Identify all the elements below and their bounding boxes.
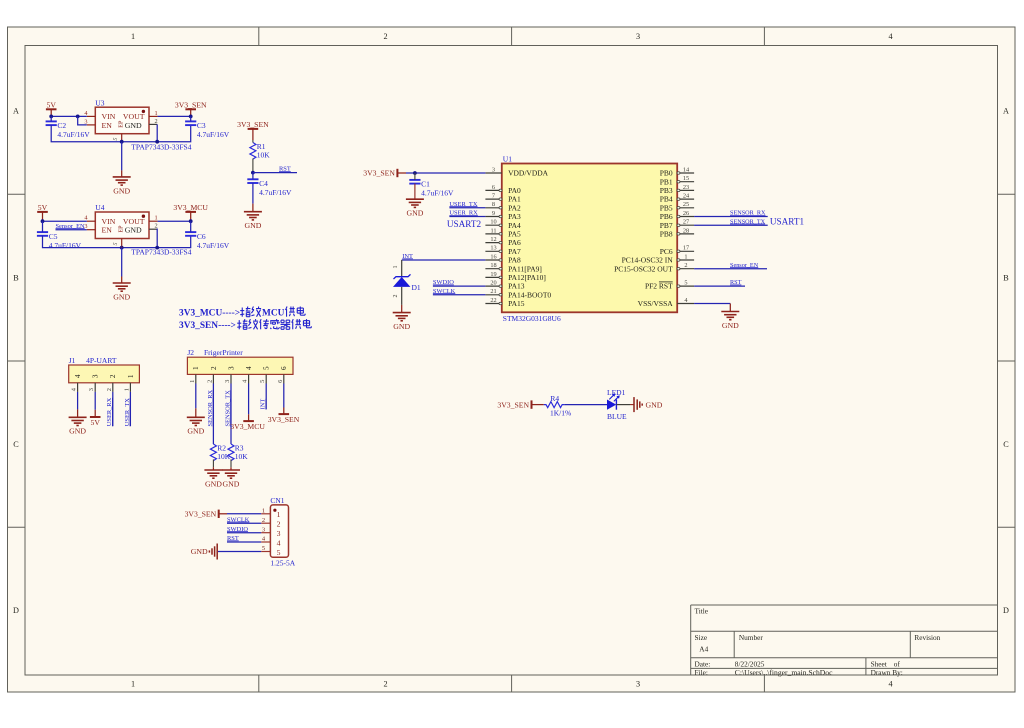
pin 4 (VIN) of U4	[84, 215, 95, 222]
svg-text:of: of	[894, 659, 901, 668]
svg-text:C:\Users\..\finger_main.SchDoc: C:\Users\..\finger_main.SchDoc	[735, 668, 833, 677]
svg-text:C3: C3	[197, 121, 206, 130]
pin 4 of J1	[71, 374, 82, 392]
wire ground rail to C3 bottom	[157, 125, 191, 142]
svg-text:PC14-OSC32 IN: PC14-OSC32 IN	[622, 256, 674, 265]
svg-text:PA13: PA13	[508, 282, 525, 291]
svg-text:2: 2	[106, 388, 113, 391]
net label SENSOR_TX (J2)	[224, 390, 231, 427]
svg-text:3V3_SEN: 3V3_SEN	[497, 400, 529, 409]
wire J2 pin3 to R3	[230, 384, 232, 445]
wire J1 pin2 USER_RX	[112, 392, 114, 426]
svg-text:2: 2	[206, 380, 213, 383]
wire EP to rail U4	[121, 247, 123, 248]
svg-text:1: 1	[684, 253, 687, 260]
resistor R4	[544, 394, 571, 418]
microcontroller U1	[502, 154, 677, 322]
svg-text:Date:: Date:	[695, 659, 711, 668]
wire RST node to C4 top	[252, 173, 254, 180]
power port 3V3_SEN (J2)	[268, 408, 300, 424]
net label SENSOR_RX (J2)	[207, 390, 214, 427]
wire EN branch U3	[78, 116, 87, 125]
power port 3V3_MCU (J2)	[230, 414, 265, 431]
svg-text:21: 21	[490, 288, 496, 295]
wire LED1 cathode	[616, 404, 630, 406]
svg-text:10K: 10K	[235, 452, 249, 461]
capacitor C5	[37, 232, 82, 250]
svg-text:2: 2	[393, 295, 399, 298]
svg-text:C5: C5	[49, 232, 58, 241]
svg-text:3V3_MCU: 3V3_MCU	[173, 203, 208, 212]
ground GND (D1)	[393, 305, 411, 331]
ground GND (J1)	[69, 409, 87, 435]
svg-text:PB4: PB4	[660, 195, 673, 204]
wire J2 pin1 to GND	[195, 384, 197, 409]
pin 5 (EP) of U4	[113, 239, 122, 247]
pin 1 (VOUT) of U3	[149, 110, 158, 117]
connector J2	[187, 348, 293, 374]
svg-text:VSS/VSSA: VSS/VSSA	[638, 299, 674, 308]
svg-text:STM32G031G8U6: STM32G031G8U6	[503, 314, 561, 323]
connector J1	[69, 356, 140, 383]
svg-text:B: B	[13, 274, 19, 283]
svg-text:3V3_MCU---->: 3V3_MCU---->	[179, 309, 240, 319]
pin 21 (PA14-BOOT0) of U1	[485, 288, 551, 299]
svg-text:PA8: PA8	[508, 256, 521, 265]
pin 27 (PB7) of U1	[660, 219, 694, 230]
wire R4 to LED1	[564, 404, 607, 406]
svg-text:4: 4	[245, 366, 253, 370]
power port 3V3_MCU (U4 output)	[173, 203, 208, 221]
svg-text:PA11[PA9]: PA11[PA9]	[508, 264, 542, 273]
svg-text:3: 3	[636, 32, 640, 41]
svg-text:Number: Number	[739, 633, 763, 642]
svg-text:4.7uF/16V: 4.7uF/16V	[421, 189, 454, 198]
svg-text:26: 26	[683, 210, 689, 217]
svg-text:PB0: PB0	[660, 169, 673, 178]
svg-text:10K: 10K	[257, 150, 271, 159]
pin 18 (PA11[PA9]) of U1	[485, 262, 541, 273]
svg-text:3V3_MCU: 3V3_MCU	[230, 422, 265, 431]
svg-text:BLUE: BLUE	[607, 412, 627, 421]
svg-text:PB1: PB1	[660, 177, 673, 186]
wire RST to CN1 pin4	[227, 541, 261, 543]
svg-text:J2: J2	[187, 348, 194, 357]
zone labels columns	[131, 32, 893, 689]
svg-text:2: 2	[155, 118, 158, 125]
capacitor C2	[46, 121, 91, 139]
svg-text:A: A	[1003, 107, 1009, 116]
svg-text:1: 1	[155, 110, 158, 117]
wire 5V to C2 top	[50, 116, 52, 121]
ground GND (R3)	[222, 467, 240, 488]
svg-text:15: 15	[683, 175, 689, 182]
svg-text:GND: GND	[187, 427, 204, 436]
pin 1 of J2	[189, 366, 200, 384]
wire SWDIO to PA13	[433, 285, 486, 287]
svg-text:3V3_SEN: 3V3_SEN	[175, 100, 207, 109]
net label INT (J2)	[260, 399, 267, 410]
svg-text:PA4: PA4	[508, 221, 521, 230]
svg-text:GND: GND	[191, 547, 208, 556]
wire 3V3_SEN to C3 top	[190, 116, 192, 121]
svg-text:GND: GND	[205, 479, 222, 488]
svg-text:File:: File:	[695, 668, 708, 677]
pin 2 of J1	[106, 374, 117, 392]
wire Sensor_EN to U4 EN	[56, 229, 87, 231]
svg-text:6: 6	[277, 380, 284, 383]
junction pin2 / rail U4	[155, 246, 159, 250]
svg-text:3V3_SEN: 3V3_SEN	[237, 120, 269, 129]
pin 5 (PF2 RST) of U1	[645, 280, 694, 291]
pin 3 (EN) of U3	[84, 118, 95, 125]
pin 4 (VSS/VSSA) of U1	[638, 297, 694, 308]
wire U3 VOUT to 3V3_SEN	[158, 115, 191, 117]
svg-text:3V3_SEN: 3V3_SEN	[268, 415, 300, 424]
svg-text:2: 2	[277, 520, 281, 529]
wire USER_TX to PA2	[449, 207, 485, 209]
pin 2 (GND) of U4	[149, 223, 158, 230]
svg-text:VDD/VDDA: VDD/VDDA	[508, 169, 549, 178]
wire 5V to C5 top	[42, 221, 44, 232]
junction VIN / EN branch	[76, 115, 80, 119]
svg-text:C: C	[13, 440, 19, 449]
svg-text:9: 9	[492, 210, 495, 217]
wire INT to PA8	[402, 259, 486, 261]
svg-text:12: 12	[490, 236, 496, 243]
svg-text:27: 27	[683, 219, 689, 226]
svg-text:3: 3	[277, 529, 281, 538]
wire 3V3_SEN to R1	[252, 140, 254, 143]
pin 6 of J2	[277, 366, 288, 384]
svg-text:4: 4	[277, 538, 281, 547]
power port 5V (U4 input)	[37, 203, 48, 221]
svg-text:2: 2	[684, 262, 687, 269]
svg-text:5V: 5V	[46, 100, 56, 109]
svg-text:EN: EN	[102, 121, 113, 130]
power port 3V3_SEN (U1 VDD)	[363, 169, 406, 178]
svg-text:3: 3	[224, 380, 231, 383]
ground GND (R2)	[204, 467, 222, 488]
svg-text:D: D	[1003, 606, 1009, 615]
pin 9 (PA3) of U1	[485, 210, 521, 221]
junction EP / rail U4	[120, 246, 124, 250]
junction 3V3_SEN / C3	[189, 115, 193, 119]
svg-text:A: A	[13, 107, 19, 116]
svg-text:USART2: USART2	[447, 219, 482, 229]
svg-text:PA5: PA5	[508, 230, 521, 239]
svg-text:2: 2	[109, 374, 117, 378]
svg-text:U4: U4	[95, 203, 104, 212]
zone ticks top/bottom	[259, 27, 765, 692]
wire 5V to U3 VIN	[51, 115, 87, 117]
svg-text:C6: C6	[197, 232, 206, 241]
pin 3 of J2	[224, 366, 235, 384]
svg-text:1: 1	[127, 374, 135, 378]
resistor R3	[228, 444, 248, 461]
wire J2 pin5 INT	[265, 384, 267, 410]
svg-text:1: 1	[277, 510, 281, 519]
pin 10 (PA4) of U1	[485, 219, 521, 230]
svg-text:1.25-5A: 1.25-5A	[270, 558, 295, 567]
wire USER_RX to PA3	[449, 216, 485, 218]
wire J2 pin6 to 3V3_SEN	[283, 384, 285, 408]
svg-text:GND: GND	[69, 427, 86, 436]
junction 3V3_MCU / C6	[189, 219, 193, 223]
svg-text:PA2: PA2	[508, 203, 521, 212]
pin 2 of CN1	[261, 517, 280, 529]
zener diode D1	[393, 274, 421, 292]
junction EP / rail	[120, 140, 124, 144]
svg-text:TPAP7343D-33FS4: TPAP7343D-33FS4	[131, 248, 191, 257]
wire R3 to GND	[230, 459, 232, 467]
ground GND (U4)	[113, 248, 131, 302]
ground GND (LED1)	[630, 397, 663, 412]
svg-text:2: 2	[262, 517, 265, 524]
svg-text:C2: C2	[57, 121, 66, 130]
title block	[691, 605, 998, 675]
pin 2 (GND) of U3	[149, 118, 158, 125]
pin 16 (PA8) of U1	[485, 253, 521, 264]
pin 17 (PC6) of U1	[660, 245, 694, 256]
svg-text:5: 5	[263, 366, 271, 370]
net label INT	[402, 253, 413, 260]
svg-text:1: 1	[131, 680, 135, 689]
svg-text:3V3_SEN---->: 3V3_SEN---->	[179, 321, 236, 331]
svg-text:GND: GND	[113, 292, 130, 301]
svg-text:22: 22	[490, 297, 496, 304]
svg-text:2: 2	[383, 32, 387, 41]
wire SWCLK to PA14	[433, 294, 486, 296]
svg-text:C4: C4	[259, 179, 268, 188]
svg-text:GND: GND	[406, 209, 423, 218]
pin 20 (PA13) of U1	[485, 280, 524, 291]
svg-text:R4: R4	[550, 394, 559, 403]
capacitor C3	[185, 121, 230, 139]
svg-text:PB8: PB8	[660, 230, 673, 239]
annotation 3V3_MCU power note	[179, 307, 305, 319]
svg-text:MCU: MCU	[262, 309, 285, 319]
svg-text:TPAP7343D-33FS4: TPAP7343D-33FS4	[131, 143, 191, 152]
wire INT to D1	[393, 260, 402, 277]
svg-text:8: 8	[492, 201, 495, 208]
net label USER_TX (J1)	[124, 398, 131, 426]
power port 3V3_SEN (R1 pull-up)	[237, 120, 269, 140]
wire EP to rail	[121, 141, 123, 143]
net label SENSOR_RX	[730, 210, 766, 217]
net label USER_RX	[449, 210, 478, 217]
svg-text:EN: EN	[102, 226, 113, 235]
ground GND (CN1)	[191, 544, 217, 560]
pin 25 (PB5) of U1	[660, 201, 694, 212]
resistor R1	[250, 142, 270, 159]
wire R2 to GND	[212, 459, 214, 467]
svg-text:USART1: USART1	[770, 217, 805, 227]
wire C4 bottom to GND	[252, 183, 254, 204]
svg-text:PB7: PB7	[660, 221, 673, 230]
svg-text:28: 28	[683, 227, 689, 234]
junction VDD / C1	[413, 171, 417, 175]
svg-text:4.7uF/16V: 4.7uF/16V	[197, 130, 230, 139]
svg-text:VOUT: VOUT	[123, 112, 145, 121]
pin 2 of D1	[393, 287, 402, 305]
svg-text:GND: GND	[113, 186, 130, 195]
capacitor C6	[185, 232, 230, 250]
wire C1 bottom to GND	[414, 184, 416, 200]
svg-text:4.7uF/16V: 4.7uF/16V	[57, 130, 90, 139]
pin 3 (EN) of U4	[84, 223, 95, 230]
svg-text:PA14-BOOT0: PA14-BOOT0	[508, 290, 551, 299]
pin 1 of J1	[123, 374, 134, 392]
svg-text:C: C	[1003, 440, 1009, 449]
svg-text:23: 23	[683, 184, 689, 191]
pin 19 (PA12[PA10]) of U1	[485, 271, 545, 282]
wire PB7 to SENSOR_TX	[694, 224, 768, 226]
svg-text:1: 1	[189, 380, 196, 383]
svg-text:4: 4	[888, 680, 892, 689]
svg-text:6: 6	[492, 184, 495, 191]
svg-text:3: 3	[262, 526, 265, 533]
svg-text:GND: GND	[646, 400, 663, 409]
wire R1 to RST node	[252, 159, 254, 173]
annotation 3V3_SEN power note	[179, 319, 311, 331]
pin 1 of CN1	[261, 507, 280, 519]
pin 4 of J2	[242, 366, 253, 384]
ground GND (C4)	[244, 204, 262, 231]
svg-text:3: 3	[636, 680, 640, 689]
svg-text:8/22/2025: 8/22/2025	[735, 659, 765, 668]
net label USER_RX (J1)	[106, 397, 113, 426]
wire GND to CN1 pin5	[218, 551, 261, 553]
svg-text:3: 3	[92, 374, 100, 378]
svg-text:Drawn By:: Drawn By:	[871, 668, 903, 677]
svg-text:U3: U3	[95, 98, 104, 107]
svg-text:PB3: PB3	[660, 186, 673, 195]
svg-text:24: 24	[683, 193, 690, 200]
pin 1 (PC14-OSC32 IN) of U1	[622, 253, 694, 264]
title block texts	[695, 606, 941, 677]
pin 1 (VOUT) of U4	[149, 215, 158, 222]
junction 5V / C5	[41, 219, 45, 223]
svg-text:LED1: LED1	[607, 388, 626, 397]
net label SWDIO (CN1)	[227, 526, 248, 533]
net label SWCLK (CN1)	[227, 516, 250, 523]
svg-text:2: 2	[383, 680, 387, 689]
pin 2 (PC15-OSC32 OUT) of U1	[614, 262, 694, 273]
net label USER_TX	[449, 201, 477, 208]
wire rail to C6 bottom	[157, 236, 191, 248]
svg-text:PC15-OSC32 OUT: PC15-OSC32 OUT	[614, 264, 673, 273]
svg-text:Size: Size	[695, 633, 708, 642]
wire J1 pin4 to GND	[77, 392, 79, 410]
svg-text:EP: EP	[119, 120, 125, 128]
capacitor C4	[247, 179, 292, 197]
svg-text:D1: D1	[412, 283, 421, 292]
pin 4 (VIN) of U3	[84, 110, 95, 117]
pin 3 of J1	[88, 374, 99, 392]
net label RST	[279, 166, 291, 173]
svg-text:Title: Title	[695, 606, 709, 615]
voltage regulator U3	[95, 98, 149, 133]
svg-text:PA12[PA10]: PA12[PA10]	[508, 273, 546, 282]
pin 13 (PA7) of U1	[485, 245, 521, 256]
capacitor C1	[409, 180, 454, 198]
svg-text:3V3_SEN: 3V3_SEN	[363, 169, 395, 178]
voltage regulator U4	[95, 203, 149, 238]
svg-text:5V: 5V	[90, 418, 100, 427]
pin 4 of CN1	[261, 536, 280, 548]
power port 5V (J1)	[90, 410, 101, 427]
svg-text:17: 17	[683, 245, 689, 252]
svg-text:PF2 RST: PF2 RST	[645, 282, 673, 291]
svg-text:5V: 5V	[38, 203, 48, 212]
pin 3 (VDD/VDDA) of U1	[485, 166, 548, 177]
svg-text:1: 1	[123, 388, 130, 391]
junction RST node	[251, 171, 255, 175]
wire rail to U4 pin2	[122, 229, 158, 248]
svg-text:A4: A4	[699, 645, 708, 654]
svg-text:20: 20	[490, 280, 496, 287]
net label Sensor_EN	[730, 262, 759, 269]
svg-text:4: 4	[74, 374, 82, 378]
net label RST (U1)	[730, 279, 742, 286]
pin 5 (EP) of U3	[113, 134, 122, 142]
pin 11 (PA5) of U1	[485, 227, 521, 238]
wire RST	[253, 172, 297, 174]
svg-text:GND: GND	[722, 321, 739, 330]
net label SWDIO	[433, 279, 454, 286]
zone labels rows	[13, 107, 1009, 616]
svg-text:PA1: PA1	[508, 195, 521, 204]
svg-text:3V3_SEN: 3V3_SEN	[185, 510, 217, 519]
svg-text:C1: C1	[421, 180, 430, 189]
svg-text:PB5: PB5	[660, 203, 673, 212]
svg-text:PA6: PA6	[508, 238, 521, 247]
pin 5 of J2	[259, 366, 270, 384]
svg-text:VOUT: VOUT	[123, 217, 145, 226]
svg-text:B: B	[1003, 274, 1009, 283]
svg-text:GND: GND	[125, 121, 142, 130]
svg-text:4.7uF/16V: 4.7uF/16V	[49, 241, 82, 250]
ground GND (U3)	[113, 142, 131, 196]
pin 26 (PB6) of U1	[660, 210, 694, 221]
svg-text:PA0: PA0	[508, 186, 521, 195]
wire J2 pin2 to R2	[212, 384, 214, 445]
svg-text:Revision: Revision	[914, 633, 940, 642]
pin 15 (PB1) of U1	[660, 175, 694, 186]
pin 12 (PA6) of U1	[485, 236, 521, 247]
svg-text:4.7uF/16V: 4.7uF/16V	[259, 188, 292, 197]
svg-text:3: 3	[227, 366, 235, 370]
wire C2 bottom to ground rail	[51, 125, 122, 142]
svg-text:25: 25	[683, 201, 689, 208]
svg-text:13: 13	[490, 245, 496, 252]
pin 22 (PA15) of U1	[485, 297, 524, 308]
svg-text:PC6: PC6	[660, 247, 673, 256]
svg-text:CN1: CN1	[270, 496, 284, 505]
svg-text:PA15: PA15	[508, 299, 525, 308]
svg-text:FrigerPrinter: FrigerPrinter	[204, 348, 243, 357]
svg-text:4P-UART: 4P-UART	[86, 356, 117, 365]
svg-text:1: 1	[131, 32, 135, 41]
wire PF2 to RST	[694, 285, 745, 287]
wire SWDIO to CN1 pin3	[227, 532, 261, 534]
power port 3V3_SEN (U3 output)	[175, 100, 207, 116]
svg-text:3: 3	[492, 166, 495, 173]
svg-text:U1: U1	[503, 154, 512, 163]
pin 2 of J2	[206, 366, 217, 384]
svg-text:5: 5	[277, 548, 281, 557]
